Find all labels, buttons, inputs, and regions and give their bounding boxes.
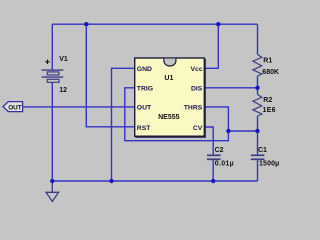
svg-text:C1: C1 bbox=[258, 147, 267, 154]
svg-text:Vcc: Vcc bbox=[191, 66, 203, 73]
capacitor C2 bbox=[207, 155, 221, 159]
node GND drop / bottom rail bbox=[109, 179, 113, 183]
out flag bbox=[3, 102, 23, 112]
capacitor C1 bbox=[251, 155, 265, 159]
wire bottom rail bbox=[52, 180, 257, 182]
svg-text:1E6: 1E6 bbox=[263, 107, 276, 114]
svg-text:NE555: NE555 bbox=[158, 114, 180, 121]
wire GND pin to bottom rail bbox=[112, 68, 135, 181]
resistor R1 bbox=[253, 55, 262, 77]
wire R1 to R2 lead bbox=[257, 76, 259, 95]
svg-text:1500µ: 1500µ bbox=[259, 161, 279, 168]
svg-text:V1: V1 bbox=[59, 56, 68, 63]
svg-text:DIS: DIS bbox=[191, 86, 203, 93]
node R2/C1 bbox=[255, 129, 259, 133]
svg-text:U1: U1 bbox=[164, 75, 173, 82]
wire battery vertical top bbox=[51, 24, 53, 70]
wire TRIG-THRS tie bbox=[125, 88, 229, 141]
wire CV pin to C2 bbox=[204, 127, 213, 154]
resistor R2 bbox=[253, 95, 262, 117]
wire R column top lead bbox=[257, 24, 259, 54]
svg-text:680K: 680K bbox=[262, 69, 279, 76]
wire C2 bottom lead bbox=[212, 160, 214, 181]
svg-text:C2: C2 bbox=[215, 147, 224, 154]
svg-text:R1: R1 bbox=[263, 57, 272, 64]
wire top rail bbox=[52, 23, 257, 25]
svg-text:R2: R2 bbox=[263, 97, 272, 104]
svg-text:12: 12 bbox=[59, 87, 67, 94]
node top rail / RST riser bbox=[84, 22, 88, 26]
node top rail / Vcc riser bbox=[216, 22, 220, 26]
svg-text:OUT: OUT bbox=[8, 104, 22, 111]
node C2 / bottom rail bbox=[211, 179, 215, 183]
node THRS tie bbox=[226, 129, 230, 133]
wire Vcc riser bbox=[204, 24, 218, 68]
svg-text:TRIG: TRIG bbox=[137, 86, 153, 93]
wire DIS pin to R1/R2 junction bbox=[204, 87, 257, 89]
node ground / battery bbox=[50, 179, 54, 183]
battery V1 bbox=[42, 70, 64, 82]
ground bbox=[46, 181, 59, 202]
svg-text:0.01µ: 0.01µ bbox=[215, 161, 234, 168]
svg-text:GND: GND bbox=[137, 66, 152, 73]
IC notch bbox=[164, 59, 176, 66]
wire R2 bottom lead bbox=[257, 116, 259, 131]
node R1/R2/DIS bbox=[255, 86, 259, 90]
svg-text:CV: CV bbox=[193, 125, 203, 132]
wire C1 top lead bbox=[257, 131, 259, 154]
svg-text:RST: RST bbox=[137, 125, 151, 132]
wire RST riser from top rail bbox=[86, 24, 134, 127]
wire OUT flag to OUT pin bbox=[23, 106, 135, 108]
battery plus sign bbox=[45, 60, 49, 64]
op-amp U1 body (NE555 IC) bbox=[135, 58, 205, 136]
wire C1 bottom lead bbox=[257, 160, 259, 181]
svg-text:THRS: THRS bbox=[184, 105, 203, 112]
IC shadow bottom/right bbox=[135, 59, 205, 137]
wire battery vertical bottom bbox=[51, 82, 53, 181]
wire THRS junction to R2/C1 bbox=[228, 130, 257, 132]
svg-text:OUT: OUT bbox=[137, 105, 152, 112]
